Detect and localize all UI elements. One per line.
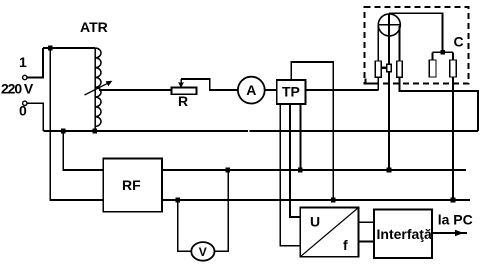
wire bus to RF upper input xyxy=(63,131,103,170)
wire upper measurement line xyxy=(162,169,466,171)
svg-text:R: R xyxy=(178,93,188,109)
lamp horizontal diameter xyxy=(378,24,400,26)
svg-text:1: 1 xyxy=(19,54,27,70)
terminal 1 xyxy=(23,75,27,79)
node dot capacitor line on lower line xyxy=(451,198,456,203)
wire lamp center down xyxy=(388,36,390,64)
svg-text:f: f xyxy=(343,237,348,253)
svg-text:U: U xyxy=(310,214,320,230)
wire U to interface upper xyxy=(359,221,375,223)
wire sensor down to upper line xyxy=(388,72,390,170)
block RF xyxy=(103,158,162,211)
node dot V loop lower xyxy=(175,198,180,203)
wire lower measurement line xyxy=(162,199,470,201)
wire V loop left xyxy=(178,200,192,251)
wire c2 down to lower line xyxy=(452,77,454,200)
wire lamp top to C junction xyxy=(389,13,443,52)
node dot C junction xyxy=(440,50,445,55)
svg-text:TP: TP xyxy=(282,84,300,100)
autotransformer ATR winding xyxy=(95,48,101,131)
node dot TP pin4 xyxy=(298,168,303,173)
bus bottom left segment xyxy=(43,130,248,132)
node dot ATR bottom xyxy=(92,129,97,134)
capacitor c2 xyxy=(450,60,457,77)
ATR wiper arrow xyxy=(85,81,113,95)
wire r1 bottom to TP line xyxy=(377,77,379,90)
wire V loop right xyxy=(214,170,228,251)
wire lamp right to resistor r2 xyxy=(399,26,401,61)
converter U/f box xyxy=(300,208,358,257)
terminal 0 xyxy=(23,101,27,105)
wire term1 to riser xyxy=(27,48,43,78)
svg-text:A: A xyxy=(246,82,256,98)
voltmeter V xyxy=(191,242,214,261)
wire output arrow to PC xyxy=(432,230,467,237)
svg-text:C: C xyxy=(454,34,464,50)
wire A to TP xyxy=(265,89,277,91)
wire lamp left to resistor r1 xyxy=(377,25,379,61)
bus bottom right segment xyxy=(250,130,478,132)
svg-text:Interfaţă: Interfaţă xyxy=(377,226,432,242)
wire R wiper loop to ammeter xyxy=(181,79,238,90)
wire C junction bar xyxy=(433,51,454,53)
wire dropper to RF lower input xyxy=(50,48,103,200)
dashed enclosure corner piece xyxy=(365,79,378,84)
svg-text:ATR: ATR xyxy=(80,19,108,35)
wire C right leg xyxy=(452,52,454,60)
svg-text:V: V xyxy=(199,245,207,259)
resistor r2 xyxy=(397,61,403,77)
wire wiper to R xyxy=(99,89,172,91)
node dot top feed xyxy=(48,46,53,51)
wire TP pin4 to upper line xyxy=(299,104,301,170)
converter diagonal xyxy=(300,208,358,257)
wire r2 to bus right end xyxy=(400,77,478,131)
capacitor c1 xyxy=(429,60,436,77)
transformer block TP xyxy=(277,80,306,104)
wire TP right to lamp branch xyxy=(306,89,379,91)
lamp symbol circle xyxy=(378,14,400,36)
interface box xyxy=(374,210,432,259)
lamp vertical diameter xyxy=(388,14,390,36)
node dot bus branch RF xyxy=(61,129,66,134)
svg-text:RF: RF xyxy=(122,177,141,193)
sensor small rect xyxy=(387,64,392,72)
wire U to interface lower xyxy=(359,240,375,242)
node dot lamp line on upper line xyxy=(387,168,392,173)
svg-text:la PC: la PC xyxy=(438,212,473,228)
resistor r1 xyxy=(375,61,381,77)
resistor R xyxy=(172,88,197,95)
node dot TP loop on lower line xyxy=(331,198,336,203)
node dot V loop upper xyxy=(225,168,230,173)
svg-text:220 V: 220 V xyxy=(1,81,34,97)
ammeter A xyxy=(238,77,265,104)
wire TP top loop down xyxy=(291,62,333,200)
wire TP pin1 to U converter xyxy=(280,104,300,246)
wire top feed to ATR xyxy=(43,47,95,49)
wire TP pin2 to U converter xyxy=(290,104,300,217)
R wiper arrow xyxy=(178,79,184,88)
wire term0 to bottom bus xyxy=(27,103,43,131)
wire C left leg xyxy=(432,52,434,60)
dashed enclosure xyxy=(365,7,469,84)
connector r1 to sensor xyxy=(381,67,386,69)
